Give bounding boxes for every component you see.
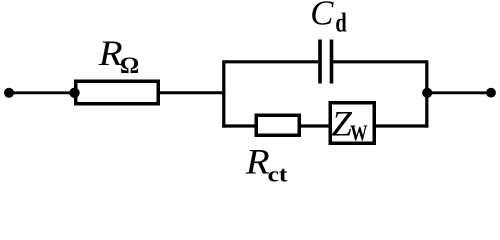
label C-d [310, 0, 347, 39]
wire left terminal to node A [9, 91, 74, 94]
label R-ct [245, 143, 288, 187]
resistor R2 (R-ct box) [256, 115, 299, 135]
svg-text:R: R [245, 143, 270, 182]
left terminal dot [4, 88, 14, 98]
svg-text:d: d [335, 8, 347, 39]
right terminal dot [486, 88, 496, 98]
wire R-ct to Z-W [301, 124, 330, 127]
svg-text:C: C [310, 0, 334, 33]
wire Z-W to right vertical [374, 124, 428, 127]
resistor R1 (R-ohm box) [76, 81, 159, 104]
wire resistor to parallel section [158, 91, 225, 94]
impedance Z1 (Warburg Z-W box) [330, 103, 374, 144]
svg-text:W: W [350, 121, 367, 146]
capacitor C1 right plate [330, 40, 334, 84]
wire top branch right with right vertical [333, 62, 427, 128]
node B junction dot [422, 88, 432, 98]
label Z-W [332, 104, 368, 145]
svg-text:Ω: Ω [120, 54, 139, 79]
capacitor C1 left plate [318, 40, 322, 84]
node A junction dot [69, 88, 79, 98]
wire node B to right terminal [427, 91, 491, 94]
wire left vertical branch with top corner [224, 62, 318, 128]
svg-text:ct: ct [268, 163, 288, 187]
label R-ohm [98, 35, 139, 79]
wire bottom branch left segment [222, 124, 256, 127]
